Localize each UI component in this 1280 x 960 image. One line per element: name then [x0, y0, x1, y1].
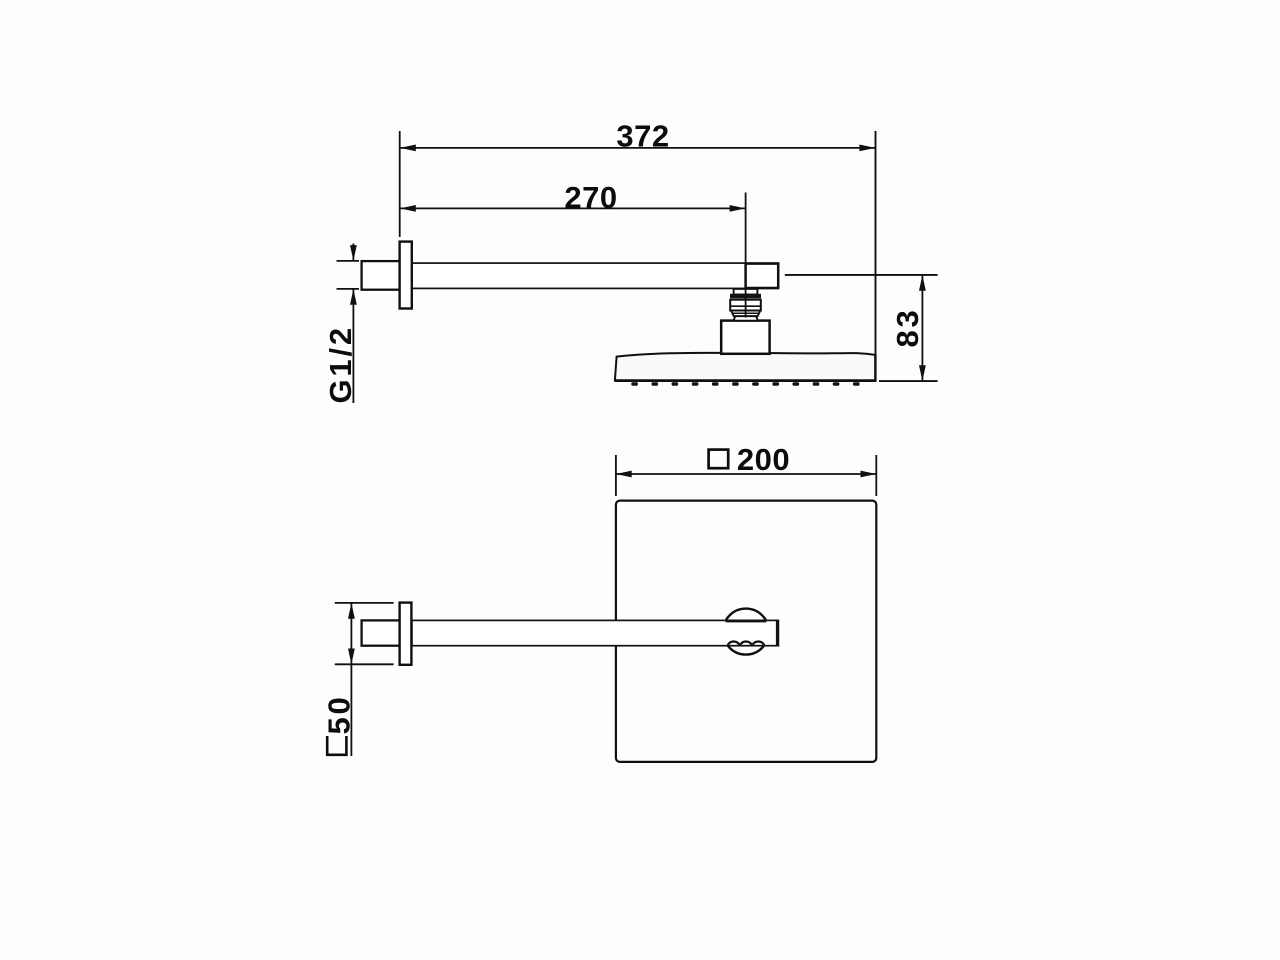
head bottom face line	[615, 380, 877, 383]
nut: body	[730, 300, 761, 311]
extension line: pipe top (G1/2)	[337, 260, 360, 262]
ball clamp thick edge (plan)	[726, 620, 767, 623]
label square symbol (50, open)	[327, 736, 346, 755]
nut: thread band	[730, 294, 761, 299]
extension line: wall plane (left)	[399, 131, 401, 237]
dimension line 200	[616, 473, 876, 475]
wall flange (side view)	[400, 242, 412, 309]
dimension line 270	[400, 207, 745, 209]
extension line: square right (200)	[875, 455, 877, 496]
nut: top collar	[734, 289, 758, 295]
dimension line 50	[350, 603, 352, 756]
svg-text:50: 50	[321, 694, 356, 734]
head right edge overdraw	[874, 354, 876, 381]
extension line: flange bottom (50)	[335, 663, 394, 665]
dimension line G1/2 lower segment	[352, 289, 354, 403]
nut: taper ring line	[732, 312, 759, 314]
head plate (plan)	[616, 501, 876, 762]
extension line: head right edge (right, for 372)	[875, 131, 877, 381]
svg-text:G1/2: G1/2	[323, 325, 358, 403]
dimension line G1/2 upper segment	[352, 244, 354, 261]
arm end cap (side view)	[746, 264, 779, 288]
svg-text:200: 200	[737, 442, 790, 477]
dimension line 83	[921, 275, 923, 381]
shower arm (plan)	[412, 620, 779, 645]
nut: taper	[731, 311, 760, 317]
extension line: from arm end (83)	[785, 274, 938, 276]
extension line: pipe bottom (G1/2)	[337, 288, 360, 290]
extension line: from head bottom (83)	[879, 380, 938, 382]
wall flange (plan)	[400, 603, 412, 665]
extension line: square left (200)	[615, 455, 617, 496]
nut: thread separator	[731, 298, 761, 300]
nut: thread line	[730, 299, 761, 301]
svg-text:372: 372	[616, 119, 669, 154]
wall pipe stub (side view)	[362, 261, 400, 290]
nut: body ring line	[730, 305, 761, 307]
shower head profile (side view)	[615, 353, 876, 380]
dimension line 372	[400, 147, 875, 149]
shower arm (side view)	[412, 263, 779, 288]
mount block on head	[721, 321, 769, 354]
swivel ball (plan)	[723, 609, 769, 655]
nut: flare collar	[734, 316, 758, 321]
svg-text:270: 270	[564, 180, 617, 215]
extension line 270 / swivel axis	[745, 193, 747, 318]
extension line: flange top (50)	[335, 602, 394, 604]
svg-text:83: 83	[890, 307, 925, 347]
scalloped grip line (plan)	[728, 641, 765, 646]
label square symbol (200)	[709, 450, 729, 469]
spray nozzles	[631, 382, 859, 385]
arm end cap (plan)	[776, 620, 779, 645]
wall pipe stub (plan)	[362, 620, 400, 645]
